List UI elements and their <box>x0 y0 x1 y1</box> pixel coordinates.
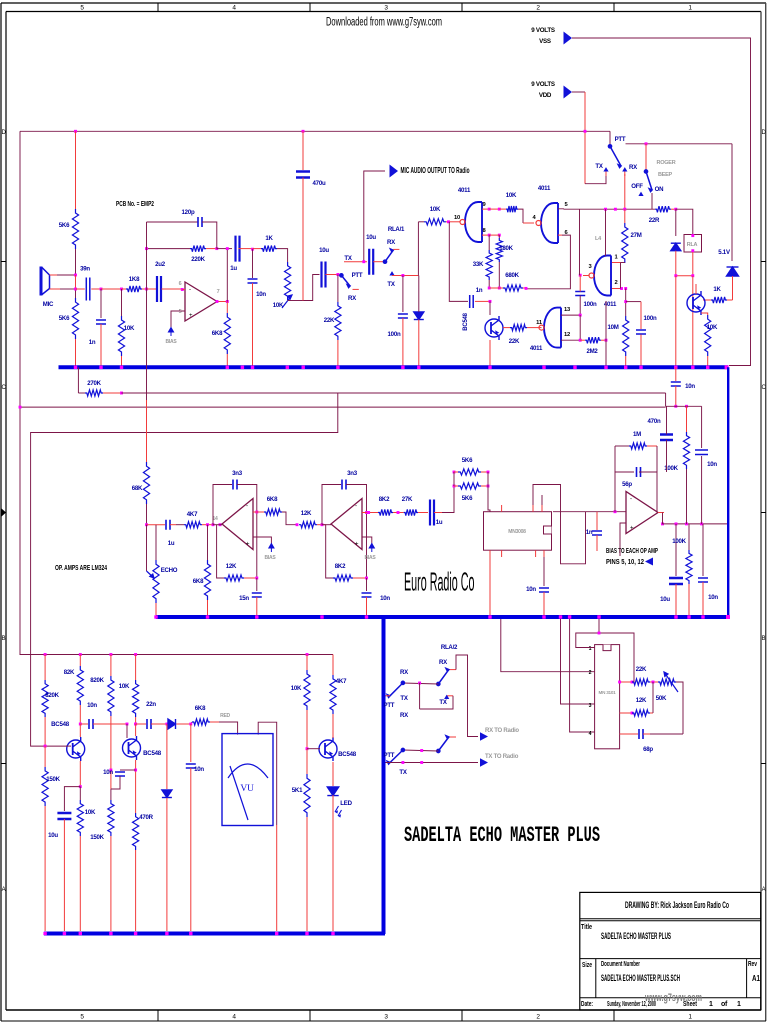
wire <box>146 504 148 525</box>
junction <box>120 366 123 369</box>
junction <box>219 523 222 526</box>
svg-text:6K8: 6K8 <box>193 578 204 585</box>
wire <box>44 746 46 767</box>
resistor 27M <box>622 223 628 263</box>
wire <box>78 392 85 394</box>
wire <box>686 469 688 524</box>
junction <box>706 366 709 369</box>
resistor 1K8 <box>126 286 142 292</box>
wire to bus <box>688 584 690 615</box>
LED <box>327 787 338 796</box>
wire feedback to input <box>146 249 148 289</box>
junction <box>226 366 229 369</box>
wire rail to gate input <box>579 209 581 275</box>
junction <box>614 208 617 211</box>
wire 10K <box>121 289 123 316</box>
svg-text:10: 10 <box>454 215 460 221</box>
resistor 12K <box>224 575 244 581</box>
pin RX <box>449 669 456 671</box>
wire TX to radio <box>386 762 479 764</box>
junction <box>74 366 77 369</box>
wire coil link <box>676 275 693 277</box>
svg-text:Date:: Date: <box>581 1001 593 1008</box>
svg-text:1: 1 <box>737 1001 741 1008</box>
svg-text:Title: Title <box>581 924 592 931</box>
resistor 150K <box>42 767 48 806</box>
svg-text:270K: 270K <box>87 380 101 387</box>
wire base <box>307 748 320 750</box>
svg-text:ON: ON <box>655 186 664 193</box>
junction <box>417 366 420 369</box>
diode zener <box>671 243 681 251</box>
wire pot to bus <box>155 603 157 615</box>
pin <box>501 550 503 557</box>
svg-text:820K: 820K <box>45 692 59 699</box>
junction <box>498 287 501 290</box>
pin <box>532 505 534 512</box>
junction <box>691 366 694 369</box>
wire 10n <box>702 524 704 576</box>
wire input <box>322 524 331 526</box>
net arrow VSS <box>564 32 573 45</box>
junction <box>447 220 450 223</box>
wire VU to bus <box>276 825 278 931</box>
svg-text:82K: 82K <box>64 669 75 676</box>
junction <box>525 287 528 290</box>
svg-text:100n: 100n <box>584 301 597 308</box>
svg-text:56p: 56p <box>622 481 632 488</box>
junction <box>365 511 368 514</box>
wire feedback rail <box>122 392 666 394</box>
wire <box>57 274 76 276</box>
junction <box>44 745 47 748</box>
wire 120p top <box>147 221 199 223</box>
resistor 6K8 <box>224 313 230 354</box>
svg-text:TX TO Radio: TX TO Radio <box>485 754 519 760</box>
junction <box>401 366 404 369</box>
junction <box>559 615 562 618</box>
junction <box>19 406 22 409</box>
svg-text:27M: 27M <box>630 232 641 239</box>
wire top supply rail <box>20 130 610 132</box>
wire <box>191 722 192 724</box>
wire return rail <box>20 406 666 408</box>
svg-text:10u: 10u <box>660 596 670 603</box>
junction <box>674 208 677 211</box>
junction <box>401 366 404 369</box>
wire beep emitter <box>701 313 708 315</box>
wire <box>80 723 88 725</box>
wire <box>110 789 112 800</box>
junction <box>251 366 254 369</box>
junction <box>623 208 626 211</box>
junction <box>189 932 192 935</box>
op-amp U1A <box>185 282 217 321</box>
svg-text:PCB No. = EMP2: PCB No. = EMP2 <box>116 199 154 208</box>
junction <box>79 653 82 656</box>
junction <box>305 932 308 935</box>
svg-text:BIAS: BIAS <box>365 555 377 561</box>
junction <box>63 932 66 935</box>
svg-text:BEEP: BEEP <box>658 172 673 178</box>
svg-text:22R: 22R <box>649 217 660 224</box>
svg-text:10K: 10K <box>291 685 302 692</box>
wire 10M to bus <box>625 356 627 366</box>
junction <box>579 339 582 342</box>
border inner frame <box>6 11 761 13</box>
wire 180K top <box>498 235 500 238</box>
capacitor 1n <box>96 320 106 324</box>
resistor 820K <box>108 676 114 716</box>
wire <box>403 750 438 751</box>
svg-text:PTT: PTT <box>384 702 395 709</box>
wire column <box>417 222 419 276</box>
wire <box>332 714 334 739</box>
svg-text:4K7: 4K7 <box>187 511 198 518</box>
resistor 5K6 <box>72 209 78 249</box>
junction <box>401 274 404 277</box>
junction <box>134 723 137 726</box>
junction <box>286 366 289 369</box>
wire 470u bottom <box>302 178 304 301</box>
capacitor 10u <box>369 249 373 275</box>
svg-text:PTT: PTT <box>615 136 626 143</box>
pin RX contact <box>624 172 626 177</box>
svg-text:10n: 10n <box>256 291 266 298</box>
svg-text:5K6: 5K6 <box>462 457 473 464</box>
svg-text:RX TO Radio: RX TO Radio <box>485 728 519 734</box>
svg-text:10u: 10u <box>48 832 58 839</box>
svg-text:VSS: VSS <box>539 38 551 45</box>
svg-text:10n: 10n <box>685 383 695 390</box>
svg-text:27K: 27K <box>402 496 413 503</box>
wire 10K to bus <box>707 356 709 366</box>
junction <box>542 366 545 369</box>
preset wiper arrow ECHO <box>147 571 155 578</box>
wire output to feedback <box>226 249 228 302</box>
svg-text:120p: 120p <box>182 209 195 216</box>
wire <box>666 406 668 434</box>
capacitor 56p <box>637 467 641 477</box>
resistor 6K8 <box>204 560 210 600</box>
wire <box>633 660 635 682</box>
wire 10u <box>64 787 80 811</box>
wire to bus <box>79 836 81 931</box>
junction <box>134 723 137 726</box>
svg-text:22K: 22K <box>509 338 520 345</box>
svg-text:3: 3 <box>589 703 592 709</box>
wire to bus <box>226 354 228 366</box>
svg-text:BC548: BC548 <box>51 721 70 728</box>
resistor 100K <box>686 550 692 584</box>
wire 22K to bus <box>337 340 339 366</box>
resistor 12K <box>632 710 650 716</box>
svg-text:ROGER: ROGER <box>657 160 676 166</box>
junction <box>631 712 634 715</box>
junction <box>306 653 309 656</box>
wire oscillator column <box>605 301 607 366</box>
capacitor 470n <box>660 435 673 441</box>
wire 5K6 top <box>75 131 77 209</box>
svg-text:VU: VU <box>240 784 254 794</box>
wire <box>498 262 500 288</box>
svg-text:1n: 1n <box>586 529 593 536</box>
pot arrow 50K <box>664 672 678 692</box>
wire 33K top <box>488 235 490 250</box>
svg-text:10n: 10n <box>526 586 536 593</box>
resistor 5K6 <box>458 483 481 489</box>
wire chip out <box>553 511 626 513</box>
transistor Q2 BC548 <box>123 736 141 760</box>
wire 120p loop left <box>146 222 148 249</box>
border arrow mark left <box>2 509 7 517</box>
relay coil RLA <box>684 235 702 253</box>
wire <box>155 525 157 548</box>
resistor 10K <box>304 670 310 710</box>
junction <box>453 485 456 488</box>
junction <box>685 405 688 408</box>
wire 10n from bus <box>675 367 677 381</box>
net arrow TX TO Radio <box>480 758 488 766</box>
junction <box>331 932 334 935</box>
svg-text:RX: RX <box>400 712 409 719</box>
wire to bus <box>63 819 65 931</box>
wire zener to 1K <box>732 276 734 300</box>
junction <box>120 366 123 369</box>
junction <box>255 511 258 514</box>
op-amp U4 <box>626 492 658 534</box>
svg-text:TX: TX <box>439 699 447 706</box>
wire <box>701 406 703 448</box>
wire to bus <box>256 597 258 615</box>
pin out <box>658 512 664 514</box>
wire <box>79 655 81 667</box>
wire box right <box>656 446 658 472</box>
svg-text:2: 2 <box>615 280 618 286</box>
svg-text:SADELTA ECHO MASTER PLUS: SADELTA ECHO MASTER PLUS <box>601 931 671 941</box>
junction <box>165 723 168 726</box>
svg-text:TX: TX <box>400 695 408 702</box>
svg-text:39n: 39n <box>80 266 90 273</box>
junction <box>691 274 694 277</box>
wire to trimmer <box>277 249 288 262</box>
net arrow VDD <box>564 86 573 99</box>
junction <box>79 932 82 935</box>
junction <box>275 932 278 935</box>
wire 100K <box>688 524 690 550</box>
junction <box>706 366 709 369</box>
junction <box>542 615 545 618</box>
wire output rail <box>663 523 728 525</box>
switch PTT <box>608 145 621 168</box>
wire to bus <box>166 798 168 931</box>
wire 100K top <box>686 406 688 432</box>
svg-text:10n: 10n <box>380 595 390 602</box>
junction <box>181 288 184 291</box>
svg-text:22K: 22K <box>324 317 335 324</box>
svg-text:BIAS TO EACH OP AMP: BIAS TO EACH OP AMP <box>606 546 658 555</box>
capacitor 100n <box>636 330 646 334</box>
junction <box>488 615 491 618</box>
wire <box>403 683 438 684</box>
pin RX open <box>393 248 399 250</box>
junction <box>687 615 690 618</box>
svg-text:4011: 4011 <box>458 187 471 194</box>
junction <box>120 288 123 291</box>
svg-text:5K6: 5K6 <box>462 495 473 502</box>
resistor 470R <box>133 813 139 850</box>
svg-text:680K: 680K <box>505 272 519 279</box>
wire VDD drop <box>584 92 586 184</box>
svg-text:100K: 100K <box>672 538 686 545</box>
wire <box>598 619 600 633</box>
svg-text:2M2: 2M2 <box>586 348 598 355</box>
capacitor 10n <box>671 382 681 386</box>
capacitor 1u <box>166 520 170 530</box>
resistor 10M <box>623 316 629 356</box>
resistor 8K2 <box>333 575 353 581</box>
pin 8 <box>482 234 489 236</box>
wire <box>110 655 112 677</box>
wire <box>675 386 677 406</box>
junction <box>226 300 229 303</box>
wire 1n <box>100 289 102 318</box>
wire 1n <box>596 512 598 530</box>
svg-text:5K1: 5K1 <box>292 787 303 794</box>
junction <box>154 615 157 618</box>
junction <box>216 300 219 303</box>
wire <box>217 248 232 250</box>
resistor 12K <box>299 522 317 528</box>
svg-text:10n: 10n <box>194 766 204 773</box>
resistor 180K <box>496 238 502 262</box>
svg-text:BC548: BC548 <box>143 750 162 757</box>
svg-text:10n: 10n <box>103 769 113 776</box>
svg-text:1: 1 <box>589 646 592 652</box>
BIAS net arrow <box>369 544 374 553</box>
wire 1n to bus <box>100 324 102 366</box>
wire <box>44 717 46 746</box>
junction <box>418 682 421 685</box>
junction <box>674 366 677 369</box>
svg-text:1K: 1K <box>713 286 721 293</box>
capacitor 22n <box>147 719 151 729</box>
resistor 820K <box>42 680 48 717</box>
wire 10u <box>675 524 677 576</box>
junction <box>487 471 490 474</box>
pin <box>489 550 491 557</box>
capacitor 10n <box>115 772 125 776</box>
junction <box>306 747 309 750</box>
junction <box>691 366 694 369</box>
junction <box>251 366 254 369</box>
wire feedback top <box>322 485 341 525</box>
junction <box>604 366 607 369</box>
wire to bus <box>306 817 308 931</box>
op-amp U2 <box>222 499 253 550</box>
svg-text:1u: 1u <box>230 265 237 272</box>
svg-text:PINS 5, 10, 12: PINS 5, 10, 12 <box>606 557 644 566</box>
resistor 2M2 <box>585 337 601 343</box>
wire RX to radio <box>456 655 478 737</box>
svg-text:OFF: OFF <box>631 183 643 190</box>
wire <box>79 787 81 800</box>
resistor 22K <box>335 302 341 340</box>
junction <box>725 365 729 369</box>
svg-text:BIAS: BIAS <box>166 339 178 345</box>
junction <box>489 366 492 369</box>
wire <box>166 724 168 789</box>
wire TX contact row <box>392 275 418 277</box>
junction <box>488 234 491 237</box>
meter VU dial <box>228 764 268 778</box>
capacitor 39n <box>86 278 90 301</box>
capacitor 10n <box>248 279 258 283</box>
resistor 1K <box>261 246 277 252</box>
svg-text:ECHO: ECHO <box>161 567 178 574</box>
pin <box>541 505 543 512</box>
wire coil down <box>692 252 694 276</box>
junction <box>215 247 218 250</box>
svg-text:6: 6 <box>179 281 182 287</box>
wire pot top <box>155 548 157 560</box>
svg-text:TX: TX <box>387 281 395 288</box>
wire to bus <box>543 592 545 615</box>
junction <box>74 366 77 369</box>
wire zener bottom <box>675 251 677 276</box>
junction <box>489 300 492 303</box>
svg-text:50K: 50K <box>656 695 667 702</box>
resistor 5K6 <box>72 298 78 339</box>
junction <box>487 485 490 488</box>
ground bus bottom <box>44 932 385 936</box>
wire <box>306 710 308 749</box>
junction <box>631 681 634 684</box>
junction <box>640 366 643 369</box>
svg-text:of: of <box>721 1001 728 1008</box>
resistor 6K8 <box>264 509 282 515</box>
junction <box>44 653 47 656</box>
svg-text:180K: 180K <box>499 245 513 252</box>
resistor 10K <box>705 315 711 356</box>
junction <box>212 523 215 526</box>
svg-text:Euro Radio Co: Euro Radio Co <box>404 567 475 597</box>
junction <box>674 366 677 369</box>
svg-text:3n3: 3n3 <box>232 470 243 477</box>
wire mic signal <box>50 288 61 290</box>
junction <box>79 723 82 726</box>
svg-text:1K: 1K <box>265 235 273 242</box>
wire pin 13 <box>561 314 580 316</box>
junction <box>134 932 137 935</box>
resistor 8K2 <box>378 509 393 515</box>
svg-text:22n: 22n <box>146 701 156 708</box>
wire <box>190 724 192 762</box>
wire to bus <box>702 582 704 615</box>
capacitor 1u <box>236 236 240 262</box>
junction <box>620 287 623 290</box>
wire to 10M <box>625 289 627 317</box>
svg-text:1u: 1u <box>436 519 443 526</box>
junction <box>624 300 627 303</box>
svg-text:+: + <box>630 526 634 532</box>
svg-text:PTT: PTT <box>352 272 363 279</box>
svg-text:470R: 470R <box>139 814 153 821</box>
pin 11 stub <box>527 327 542 329</box>
resistor 27K <box>404 509 418 515</box>
wire cap to bus <box>640 335 642 367</box>
junction <box>296 523 299 526</box>
